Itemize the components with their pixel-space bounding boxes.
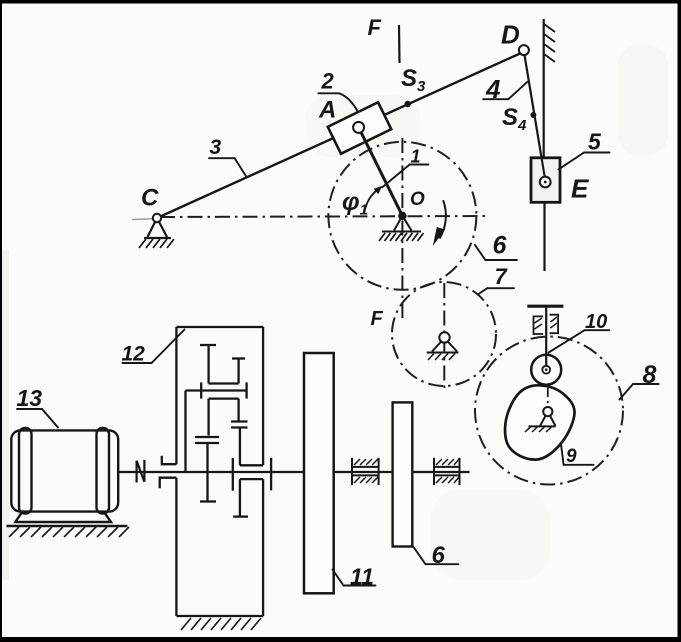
svg-text:F: F xyxy=(371,308,384,330)
svg-text:F: F xyxy=(368,15,382,40)
svg-text:10: 10 xyxy=(585,311,607,333)
svg-text:3: 3 xyxy=(210,136,222,159)
svg-text:1: 1 xyxy=(411,147,421,167)
svg-text:C: C xyxy=(141,185,159,212)
svg-text:A: A xyxy=(318,97,336,124)
svg-text:9: 9 xyxy=(566,446,577,467)
svg-text:11: 11 xyxy=(350,564,374,590)
svg-text:O: O xyxy=(410,189,425,210)
svg-text:D: D xyxy=(501,20,520,50)
svg-text:E: E xyxy=(571,174,589,204)
svg-text:4: 4 xyxy=(485,74,501,104)
svg-text:2: 2 xyxy=(321,69,335,94)
svg-text:6: 6 xyxy=(493,232,508,260)
svg-text:8: 8 xyxy=(643,361,657,389)
svg-text:5: 5 xyxy=(588,129,602,155)
svg-text:13: 13 xyxy=(17,385,43,411)
svg-text:12: 12 xyxy=(122,343,146,366)
svg-text:6: 6 xyxy=(432,542,446,569)
svg-text:7: 7 xyxy=(495,264,509,289)
